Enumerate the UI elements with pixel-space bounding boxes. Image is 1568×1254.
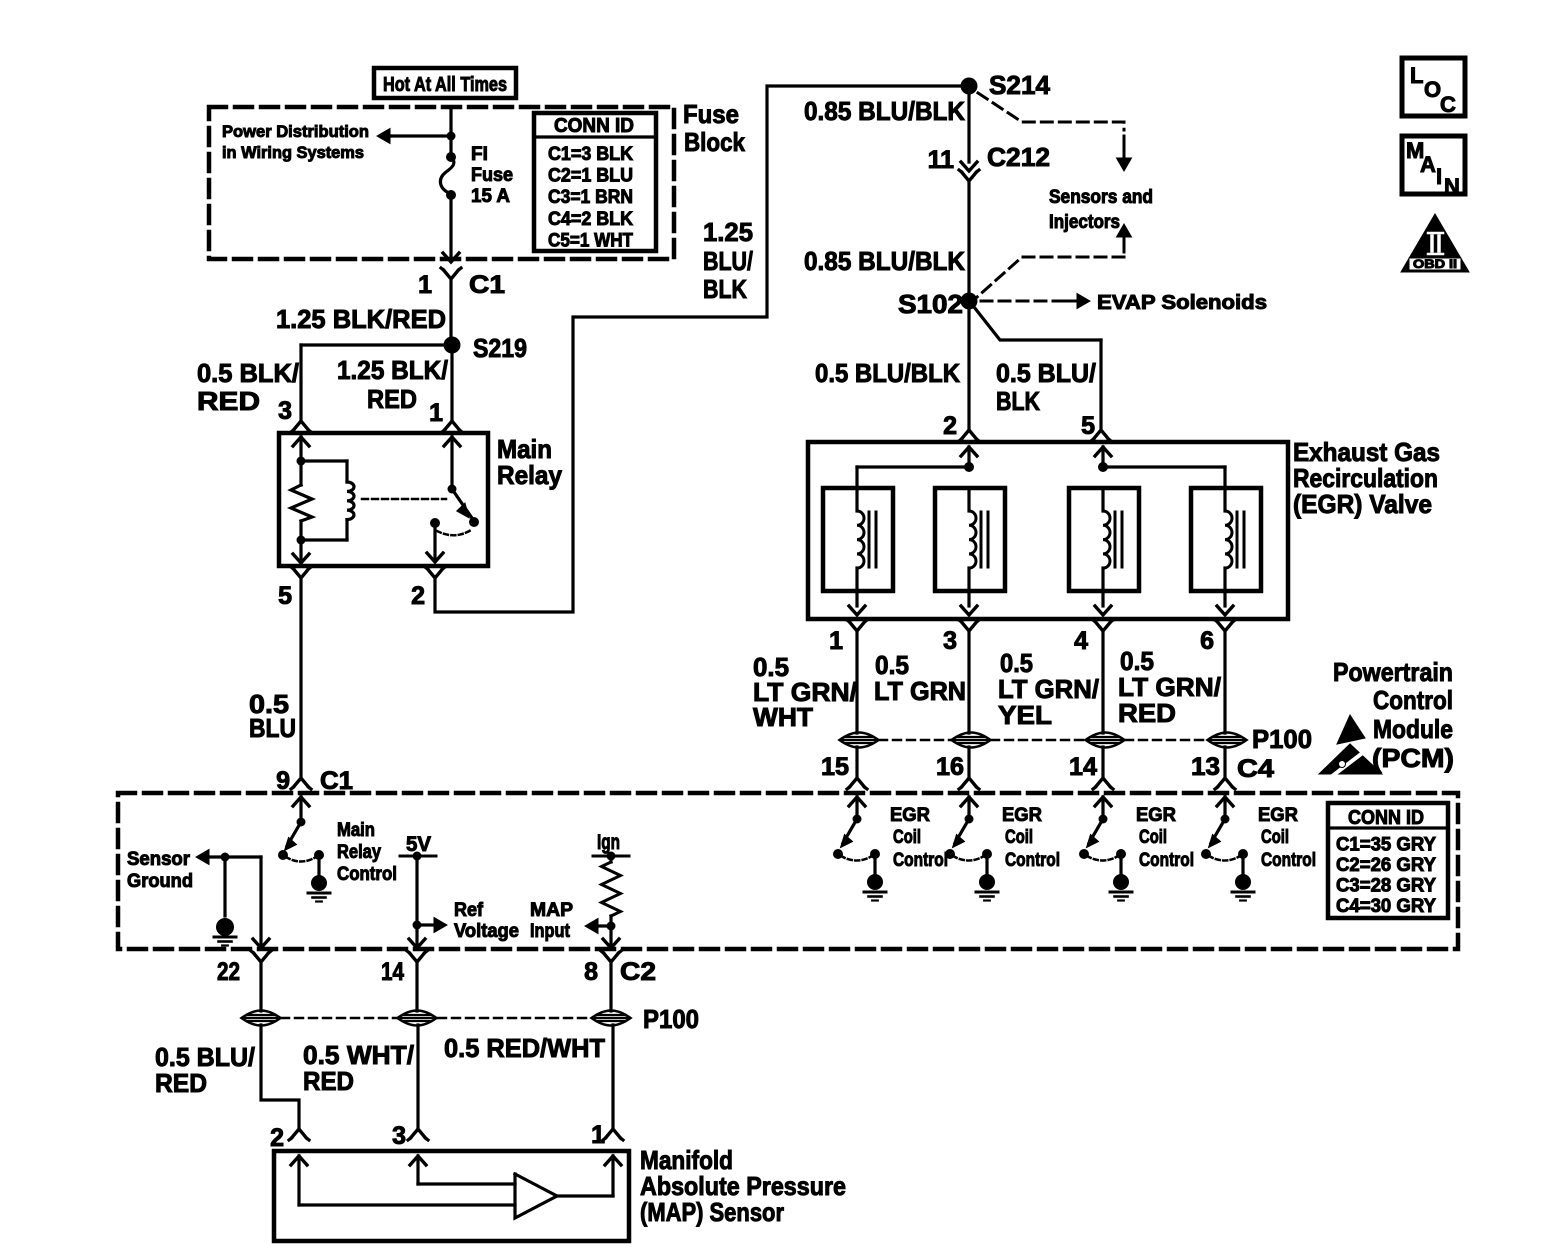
svg-text:RED: RED bbox=[197, 386, 260, 416]
svg-text:0.5: 0.5 bbox=[249, 689, 289, 719]
svg-text:1: 1 bbox=[591, 1121, 605, 1149]
svg-text:15: 15 bbox=[821, 753, 849, 781]
svg-text:Control: Control bbox=[1373, 685, 1453, 715]
svg-text:C5=1 WHT: C5=1 WHT bbox=[548, 230, 633, 251]
svg-text:3: 3 bbox=[278, 397, 292, 425]
svg-text:Fuse: Fuse bbox=[471, 165, 513, 186]
svg-text:0.5 BLU/BLK: 0.5 BLU/BLK bbox=[815, 358, 960, 388]
svg-text:S214: S214 bbox=[989, 70, 1051, 100]
svg-text:C3=28 GRY: C3=28 GRY bbox=[1336, 876, 1436, 897]
svg-text:Relay: Relay bbox=[337, 842, 381, 863]
svg-text:Control: Control bbox=[1261, 850, 1316, 871]
svg-text:OBD II: OBD II bbox=[1413, 257, 1457, 271]
svg-text:8: 8 bbox=[584, 958, 598, 986]
svg-text:C4: C4 bbox=[1237, 755, 1274, 783]
svg-text:Coil: Coil bbox=[1005, 827, 1033, 848]
svg-text:Main: Main bbox=[337, 820, 375, 841]
svg-text:C1: C1 bbox=[469, 271, 505, 299]
svg-text:C2: C2 bbox=[620, 958, 656, 986]
svg-text:1.25 BLK/RED: 1.25 BLK/RED bbox=[276, 304, 446, 334]
svg-text:Sensors and: Sensors and bbox=[1049, 187, 1153, 208]
svg-text:0.85 BLU/BLK: 0.85 BLU/BLK bbox=[804, 246, 965, 276]
svg-text:C1=3 BLK: C1=3 BLK bbox=[548, 144, 633, 165]
svg-text:BLU/: BLU/ bbox=[703, 246, 753, 276]
svg-text:RED: RED bbox=[155, 1068, 207, 1098]
svg-text:5: 5 bbox=[278, 582, 292, 610]
svg-text:EGR: EGR bbox=[890, 805, 930, 826]
svg-text:Injectors: Injectors bbox=[1049, 212, 1120, 233]
svg-text:C: C bbox=[1440, 92, 1456, 117]
svg-text:C2=26 GRY: C2=26 GRY bbox=[1336, 855, 1436, 876]
svg-text:0.5 BLK/: 0.5 BLK/ bbox=[197, 358, 299, 388]
svg-text:0.5 BLU/: 0.5 BLU/ bbox=[996, 358, 1096, 388]
svg-text:in Wiring Systems: in Wiring Systems bbox=[222, 143, 364, 162]
svg-text:L: L bbox=[1410, 63, 1423, 88]
svg-text:I: I bbox=[1436, 164, 1442, 189]
svg-text:P100: P100 bbox=[643, 1004, 699, 1034]
svg-text:14: 14 bbox=[1069, 753, 1097, 781]
svg-text:FI: FI bbox=[471, 144, 488, 165]
svg-text:CONN ID: CONN ID bbox=[554, 115, 634, 137]
svg-text:C4=2 BLK: C4=2 BLK bbox=[548, 209, 633, 230]
svg-text:11: 11 bbox=[928, 146, 955, 174]
svg-text:Relay: Relay bbox=[497, 460, 562, 490]
svg-text:1.25 BLK/: 1.25 BLK/ bbox=[337, 355, 448, 385]
svg-text:RED: RED bbox=[303, 1066, 354, 1096]
svg-text:Coil: Coil bbox=[1261, 827, 1289, 848]
svg-text:CONN ID: CONN ID bbox=[1348, 807, 1424, 829]
svg-text:Ground: Ground bbox=[127, 871, 193, 892]
svg-text:BLK: BLK bbox=[703, 274, 747, 304]
svg-text:Control: Control bbox=[337, 864, 397, 885]
svg-text:Sensor: Sensor bbox=[127, 849, 191, 870]
svg-text:13: 13 bbox=[1191, 753, 1220, 781]
svg-text:MAP: MAP bbox=[530, 900, 573, 921]
svg-text:C4=30 GRY: C4=30 GRY bbox=[1336, 896, 1436, 917]
svg-text:Module: Module bbox=[1373, 714, 1453, 744]
svg-text:(PCM): (PCM) bbox=[1372, 743, 1454, 773]
svg-text:Coil: Coil bbox=[1139, 827, 1167, 848]
svg-text:Control: Control bbox=[893, 850, 948, 871]
svg-text:EVAP Solenoids: EVAP Solenoids bbox=[1097, 292, 1267, 314]
svg-text:0.85 BLU/BLK: 0.85 BLU/BLK bbox=[804, 96, 965, 126]
svg-text:1: 1 bbox=[429, 399, 443, 427]
svg-text:Power Distribution: Power Distribution bbox=[222, 122, 369, 141]
svg-text:WHT: WHT bbox=[753, 702, 813, 732]
svg-text:Powertrain: Powertrain bbox=[1333, 657, 1453, 687]
svg-text:Voltage: Voltage bbox=[454, 921, 519, 942]
svg-text:EGR: EGR bbox=[1258, 805, 1298, 826]
svg-text:S102: S102 bbox=[898, 289, 963, 319]
svg-text:C3=1 BRN: C3=1 BRN bbox=[548, 187, 633, 208]
svg-text:5: 5 bbox=[1081, 412, 1095, 440]
svg-text:YEL: YEL bbox=[998, 700, 1052, 730]
svg-text:Control: Control bbox=[1139, 850, 1194, 871]
svg-text:(EGR) Valve: (EGR) Valve bbox=[1293, 489, 1432, 519]
svg-text:6: 6 bbox=[1200, 627, 1214, 655]
svg-text:2: 2 bbox=[411, 582, 425, 610]
svg-text:BLK: BLK bbox=[996, 386, 1040, 416]
svg-text:1: 1 bbox=[829, 627, 843, 655]
svg-text:22: 22 bbox=[217, 958, 240, 986]
svg-text:RED: RED bbox=[367, 384, 417, 414]
svg-text:EGR: EGR bbox=[1002, 805, 1042, 826]
svg-text:0.5 RED/WHT: 0.5 RED/WHT bbox=[444, 1033, 605, 1063]
svg-text:14: 14 bbox=[381, 958, 404, 986]
svg-text:Hot At All Times: Hot At All Times bbox=[383, 74, 507, 96]
svg-text:4: 4 bbox=[1074, 627, 1088, 655]
svg-text:Input: Input bbox=[530, 921, 571, 942]
svg-text:Ref: Ref bbox=[454, 900, 484, 921]
svg-text:2: 2 bbox=[943, 412, 957, 440]
svg-text:LT GRN: LT GRN bbox=[874, 676, 966, 706]
svg-text:3: 3 bbox=[943, 627, 957, 655]
svg-text:A: A bbox=[1420, 152, 1436, 177]
svg-text:P100: P100 bbox=[1252, 724, 1312, 754]
svg-text:C2=1 BLU: C2=1 BLU bbox=[548, 166, 633, 187]
svg-text:Ign: Ign bbox=[597, 831, 620, 854]
svg-text:15 A: 15 A bbox=[471, 186, 510, 207]
svg-text:(MAP) Sensor: (MAP) Sensor bbox=[640, 1197, 784, 1227]
svg-text:C1=35 GRY: C1=35 GRY bbox=[1336, 835, 1436, 856]
svg-text:Control: Control bbox=[1005, 850, 1060, 871]
svg-text:Block: Block bbox=[684, 127, 745, 157]
svg-text:1.25: 1.25 bbox=[703, 217, 753, 247]
svg-text:O: O bbox=[1424, 77, 1441, 102]
svg-text:C212: C212 bbox=[987, 142, 1050, 172]
svg-text:16: 16 bbox=[936, 753, 964, 781]
svg-text:Coil: Coil bbox=[893, 827, 921, 848]
svg-text:Fuse: Fuse bbox=[683, 99, 739, 129]
svg-text:RED: RED bbox=[1118, 698, 1176, 728]
svg-text:1: 1 bbox=[418, 271, 432, 299]
svg-text:S219: S219 bbox=[473, 333, 527, 363]
svg-text:N: N bbox=[1444, 174, 1460, 199]
svg-text:2: 2 bbox=[270, 1124, 284, 1152]
svg-text:3: 3 bbox=[392, 1122, 406, 1150]
svg-text:EGR: EGR bbox=[1136, 805, 1176, 826]
